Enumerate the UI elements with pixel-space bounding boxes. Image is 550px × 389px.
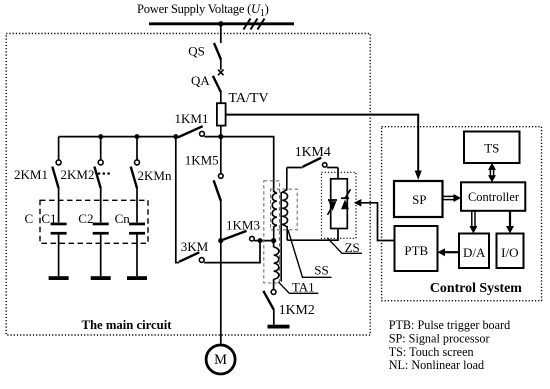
svg-text:2KM2: 2KM2: [61, 167, 95, 182]
svg-text:QA: QA: [191, 73, 210, 88]
wire QA to TA/TV: [220, 91, 222, 103]
junction dot on bus: [218, 21, 223, 26]
svg-text:M: M: [214, 352, 227, 368]
transformer dashed box tall: [264, 181, 280, 283]
svg-text:PTB: PTB: [404, 243, 428, 258]
wire 1KM4 to ZS: [337, 168, 339, 179]
box TS: [464, 132, 520, 164]
capacitor bank dashed box: [40, 200, 148, 243]
winding SS secondary: [282, 168, 287, 241]
nonlinear load ZS dotted box: [322, 172, 357, 238]
svg-text:Control System: Control System: [430, 281, 522, 296]
node 1KM3 junction: [218, 238, 223, 243]
contactor 2KMn: [136, 137, 138, 160]
switch QS: [214, 43, 221, 60]
svg-text:SP: SP: [412, 192, 426, 207]
node riser dot: [258, 238, 263, 243]
wire bus to QS: [220, 24, 222, 43]
svg-text:The main circuit: The main circuit: [82, 318, 173, 332]
svg-text:QS: QS: [188, 44, 205, 59]
svg-text:2KMn: 2KMn: [138, 168, 172, 183]
svg-text:1KM1: 1KM1: [175, 111, 209, 126]
wire bus to SS primary: [221, 137, 274, 192]
wire 3KM left drop: [175, 137, 177, 263]
transformer core line: [280, 192, 282, 282]
thyristor pair rect: [331, 179, 348, 229]
wire QS to QA: [220, 59, 222, 70]
svg-text:SP: Signal processor: SP: Signal processor: [389, 331, 490, 345]
arrow Controller to I/O: [509, 211, 511, 227]
svg-text:C2: C2: [78, 211, 93, 226]
main vertical line 1KM5 to motor: [220, 200, 222, 344]
svg-text:SS: SS: [314, 263, 328, 278]
double arrow TS-Controller: [489, 167, 491, 179]
thyristor right: [341, 200, 349, 210]
box PTB: [395, 226, 438, 271]
transformer TA/TV: [217, 103, 226, 125]
svg-text:C: C: [25, 211, 34, 226]
breaker QA blade: [213, 76, 221, 92]
box SP: [394, 181, 443, 217]
winding TA1: [273, 241, 275, 248]
svg-text:ZS: ZS: [345, 240, 360, 255]
svg-text:2KM1: 2KM1: [14, 167, 48, 182]
three-phase slashes: [244, 19, 251, 30]
label ZS with leader: [327, 238, 362, 254]
box D/A: [459, 234, 489, 269]
double arrow SP to Controller: [443, 195, 457, 197]
contactor 3KM: [179, 252, 199, 261]
svg-text:Controller: Controller: [468, 190, 520, 204]
box I/O: [497, 234, 524, 269]
svg-text:D/A: D/A: [463, 245, 486, 260]
main circuit dotted border: [6, 34, 370, 336]
wire ZS bottom to SS secondary: [287, 229, 338, 241]
svg-text:Cn: Cn: [115, 211, 131, 226]
svg-text:TA1: TA1: [292, 280, 315, 295]
double arrow Controller to D/A: [471, 211, 473, 227]
svg-text:1KM4: 1KM4: [295, 144, 331, 159]
box Controller: [461, 182, 525, 211]
svg-text:1KM2: 1KM2: [279, 302, 315, 317]
svg-text:1KM3: 1KM3: [226, 218, 260, 233]
svg-text:1KM5: 1KM5: [185, 152, 219, 167]
wire TA/TV to junction: [220, 126, 222, 137]
node bus dots: [98, 134, 103, 139]
contactor 1KM3: [223, 231, 246, 240]
svg-text:I/O: I/O: [501, 245, 518, 260]
ground bar 1KM2: [268, 325, 290, 329]
arrow D/A to PTB: [445, 251, 460, 253]
svg-text:TS: TS: [484, 141, 499, 156]
control system dotted border: [382, 127, 542, 301]
contactor 1KM2: [271, 290, 276, 295]
contactor 1KM5: [219, 174, 224, 179]
label SS with leader: [288, 230, 332, 277]
svg-text:TA/TV: TA/TV: [229, 91, 269, 106]
transformer SS dashed box: [271, 189, 298, 230]
winding SS primary: [272, 192, 277, 227]
contactor 2KM1: [58, 137, 60, 160]
contactor 1KM4: [287, 167, 303, 169]
breaker QA cross mark: [218, 70, 224, 76]
svg-text:PTB: Pulse trigger board: PTB: Pulse trigger board: [389, 318, 511, 332]
contactor 2KM2: [100, 137, 102, 160]
label TA1 with leader: [278, 282, 318, 294]
svg-text:NL: Nonlinear load: NL: Nonlinear load: [389, 358, 484, 372]
ellipsis dots: [98, 172, 101, 175]
motor M: [206, 345, 235, 374]
main vertical line to 1KM5: [220, 137, 222, 174]
wire capacitor bus: [59, 136, 176, 138]
svg-text:3KM: 3KM: [181, 239, 209, 254]
bus bar: [149, 22, 294, 25]
thyristor left: [328, 199, 337, 201]
wire PTB to ZS gate with arrow: [361, 203, 395, 241]
sense wire TA/TV to SP with arrow: [226, 115, 419, 172]
contactor 1KM1: [178, 126, 203, 137]
svg-text:TS: Touch screen: TS: Touch screen: [389, 345, 474, 359]
node main junction: [218, 134, 223, 139]
wire 3KM to riser: [204, 241, 260, 263]
wire 1KM3 to windings: [254, 240, 273, 242]
node winding dot: [271, 238, 276, 243]
